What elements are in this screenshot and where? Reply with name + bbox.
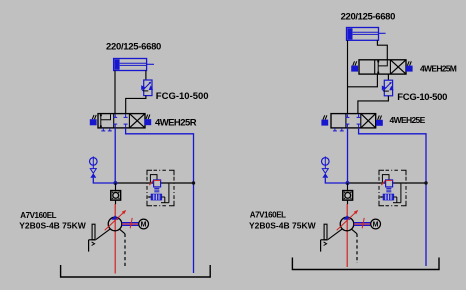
shaft pump PU1 to motor M1 (122, 218, 139, 228)
node P2 junction (346, 181, 350, 185)
node P1 junction (113, 181, 117, 185)
relief valve RV2 main stage (386, 180, 393, 187)
wire node P2 to filter F2 (347, 183, 349, 190)
cylinder CYL1 (114, 59, 154, 71)
wire flow valve FCG2 to valve V3 port B (358, 96, 389, 114)
wire pump pressure main (node P1 to tank return junction) (115, 182, 193, 184)
flow control valve FCG2 (382, 80, 394, 96)
filter F2 (343, 191, 353, 201)
svg-text:Y2B0S-4B 75KW: Y2B0S-4B 75KW (19, 221, 87, 231)
wire filter F1 to pump PU1 (114, 200, 116, 273)
valve V2 right pilot solenoid (406, 61, 412, 71)
wire valve V3 P port to pump node (347, 128, 349, 183)
svg-text:A7V160EL: A7V160EL (250, 211, 286, 220)
pump PU2 case drain (dashed) (352, 229, 357, 263)
pump PU1 stroke lever control (89, 224, 111, 251)
relief valve RV1 main stage (154, 180, 161, 187)
valve V3 right pilot solenoid (376, 116, 382, 126)
wire cylinder CYL1 port B to flow valve FCG1 (145, 71, 147, 81)
svg-text:FCG-10-500: FCG-10-500 (397, 92, 447, 103)
svg-text:M: M (141, 222, 147, 229)
svg-text:4WEH25E: 4WEH25E (390, 115, 426, 125)
svg-text:4WEH25M: 4WEH25M (420, 64, 457, 74)
valve V2 left pilot solenoid (352, 61, 358, 71)
valve V1 right pilot solenoid (145, 115, 151, 125)
relief valve RV1 solenoid vent (147, 194, 161, 200)
svg-text:A7V160EL: A7V160EL (20, 211, 56, 220)
svg-text:4WEH25R: 4WEH25R (155, 117, 197, 128)
wire relief valve RV2 drain (393, 184, 401, 203)
svg-text:220/125-6680: 220/125-6680 (106, 42, 161, 53)
valve V3 left pilot solenoid (322, 115, 328, 125)
valve V3 center position blocked ports (345, 114, 360, 127)
tank T1 (61, 265, 211, 277)
node T1 junction (192, 181, 195, 184)
relief valve assembly RV2 (dashed enclosure) (379, 170, 406, 206)
valve V3 pilot drain port stubs (333, 128, 344, 131)
relief valve RV2 pilot loop (382, 175, 389, 183)
wire flow valve FCG1 to valve V1 port B (126, 96, 146, 114)
valve V1 right position crossed arrows (129, 114, 145, 128)
wire valve V1 T port to tank T1 (126, 128, 194, 273)
wire valve V3 T port to tank T2 (359, 128, 426, 266)
valve V1 pilot drain port stubs (101, 128, 112, 131)
motor M2 (371, 219, 381, 229)
relief valve RV2 spring (386, 188, 391, 191)
wire cylinder CYL2 port A to valve V3 (347, 40, 349, 113)
wire valve V1 P port to pump node (114, 128, 116, 183)
valve V1 center position blocked ports (113, 114, 127, 127)
wire relief valve RV1 drain (161, 184, 169, 203)
flow control valve FCG1 (141, 80, 153, 96)
relief valve RV2 solenoid vent (379, 194, 393, 200)
wire gauge G1 to pump node (93, 178, 115, 183)
cylinder CYL2 (347, 28, 386, 41)
valve V1 left pilot solenoid (90, 115, 96, 125)
svg-text:FCG-10-500: FCG-10-500 (156, 91, 209, 102)
motor M1 (139, 219, 149, 229)
shaft pump PU2 to motor M2 (354, 218, 371, 228)
filter F1 (111, 191, 121, 201)
wire pump pressure main (node P2 to tank return junction) (348, 182, 427, 184)
wire valve V2 to cylinder line A (diagonal) (348, 74, 378, 87)
svg-text:220/125-6680: 220/125-6680 (341, 11, 396, 22)
node T2 junction (424, 181, 427, 184)
wire gauge G2 to pump node (325, 178, 347, 183)
relief valve assembly RV1 (dashed enclosure) (147, 170, 174, 206)
gauge shutoff valve G2 (322, 165, 328, 178)
pump PU1 case drain (dashed) (120, 229, 125, 268)
valve V2 center position arrows (377, 61, 387, 74)
tank T2 (292, 258, 439, 270)
relief valve RV1 pilot loop (150, 175, 157, 183)
pressure gauge G1 (90, 156, 98, 166)
directional valve V3 body (331, 114, 376, 128)
pump PU2 (variable displacement) (337, 210, 359, 231)
wire valve V2 to flow valve FCG2 (387, 74, 389, 80)
gauge shutoff valve G1 (90, 165, 96, 178)
pump PU1 (variable displacement) (105, 210, 127, 231)
wire cylinder CYL1 port A to valve V1 (114, 71, 116, 114)
wire filter F2 to pump PU2 (346, 200, 348, 267)
wire node P1 to filter F1 (115, 183, 117, 190)
valve V1 left position arrows (100, 114, 111, 127)
valve V3 right position crossed arrows (361, 114, 376, 128)
relief valve RV2 red pilot arrow (381, 180, 385, 185)
svg-text:M: M (373, 222, 379, 229)
wire cylinder CYL2 port B to valve V2 (377, 40, 387, 60)
directional valve V1 body (98, 114, 145, 128)
relief valve RV1 red pilot arrow (149, 180, 153, 185)
directional valve V2 body (359, 60, 406, 74)
valve V2 right position crossed arrows (390, 60, 406, 74)
relief valve RV1 spring (154, 188, 159, 191)
svg-text:Y2B0S-4B 75KW: Y2B0S-4B 75KW (249, 221, 317, 231)
pressure gauge G2 (322, 156, 330, 166)
pump PU2 stroke lever control (321, 224, 343, 251)
